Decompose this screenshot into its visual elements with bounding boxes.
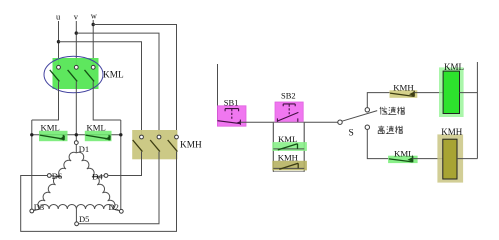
node junction w [92,23,95,26]
svg-text:KMH: KMH [278,153,299,163]
svg-text:KML: KML [278,134,297,144]
contact KMH latch highlight [272,161,307,171]
svg-text:D4: D4 [92,171,103,181]
svg-text:D6: D6 [52,171,62,181]
wire: control left rail [217,64,219,121]
contact KML aux left highlight [39,131,68,141]
contact KML aux left blade [40,135,65,141]
wire: D1 stub to winding apex [75,145,77,154]
winding left (D1-D3) [38,152,77,209]
contact KMH interlock (NC) [390,91,415,97]
wire: right outer drop to D2 [120,120,122,210]
switch S blade [342,111,377,122]
coil KMH highlight [437,134,463,182]
contact KML interlock (NC) [389,156,413,162]
contactor KML enclosure ellipse [44,56,103,93]
contact KML pole3 [85,65,121,120]
wire: KMH coil to right rail [457,158,477,160]
svg-text:KML: KML [103,71,124,81]
contact KMH latch [273,163,304,169]
latch branch frame [273,122,304,171]
node junction v [75,31,78,34]
node junction u [57,40,60,43]
contact KML pole1 [32,65,61,120]
wire: u tap to KMH pole1 [59,42,142,135]
selector switch S pole [338,120,342,124]
node junction tie-left [30,133,33,136]
contactor KMH main highlight [132,130,177,159]
contact KMH interlock highlight [390,90,418,98]
coil KML [443,71,459,113]
node junction tie-right [119,133,122,136]
wire: phase v vertical drop [75,21,77,65]
coil KMH [443,139,457,179]
wire: w tap to KMH pole3 [93,25,176,136]
svg-text:S: S [349,129,354,139]
svg-text:w: w [91,10,98,20]
svg-text:KML: KML [41,122,60,132]
contact KML latch highlight [272,142,307,151]
node junction tie-D1 [75,133,78,136]
winding bottom (D3-D2) [40,204,113,209]
svg-text:D2: D2 [109,202,119,212]
contact KML pole2 [68,65,79,140]
node D2 [113,209,123,213]
node D6 [47,174,60,178]
contact KML latch [273,144,304,150]
svg-text:SB2: SB2 [281,90,296,100]
contact KML aux right blade [86,135,111,141]
wire: high throw down to branch [367,129,389,158]
svg-text:KMH: KMH [393,83,414,93]
wire: latch left rail [272,122,274,171]
wire: v tap to KMH pole2 [76,33,159,135]
svg-text:KMH: KMH [180,141,202,151]
svg-text:SB1: SB1 [224,97,239,107]
svg-text:v: v [74,11,79,21]
wire: low throw up to branch [367,93,390,108]
switch throw low [365,108,369,112]
wire: interlock to KMH coil [413,158,443,160]
node D3 [30,209,40,213]
contact KMH pole3 [21,135,179,231]
switch throw high [365,125,369,129]
label low-speed (Chinese) [380,107,388,115]
wire: SB1 to SB2 [240,121,337,123]
svg-text:KML: KML [87,122,106,132]
contact KMH pole2 [79,135,161,224]
node D5 [75,209,79,226]
svg-text:D5: D5 [79,214,89,224]
contact KMH pole1 [108,135,144,175]
winding right (D1-D2) [76,152,115,209]
contact KML aux right highlight [85,131,112,141]
svg-text:KML: KML [394,149,414,159]
coil KML highlight [439,67,464,117]
wire: latch right rail [303,122,305,171]
wire: KML coil to right rail [460,92,478,94]
pushbutton SB2 (NO start) [275,102,303,122]
contact KML interlock highlight [388,156,418,163]
wire: left outer drop to D3 [31,120,33,209]
label high-speed (Chinese) [378,126,384,134]
node D1 [74,141,78,145]
wire: control right rail [476,62,478,159]
wire: phase w vertical drop [92,20,94,65]
wire: phase u vertical drop [58,21,60,65]
pushbutton SB1 (NC stop) [217,106,246,126]
wire: interlock to KML coil [414,92,443,94]
svg-text:D3: D3 [34,202,44,212]
wire: KML aux tie bar [32,134,121,136]
svg-text:KML: KML [444,62,464,72]
contactor KML main highlight [53,58,99,89]
node D4 [92,174,108,178]
svg-text:KMH: KMH [441,127,463,137]
